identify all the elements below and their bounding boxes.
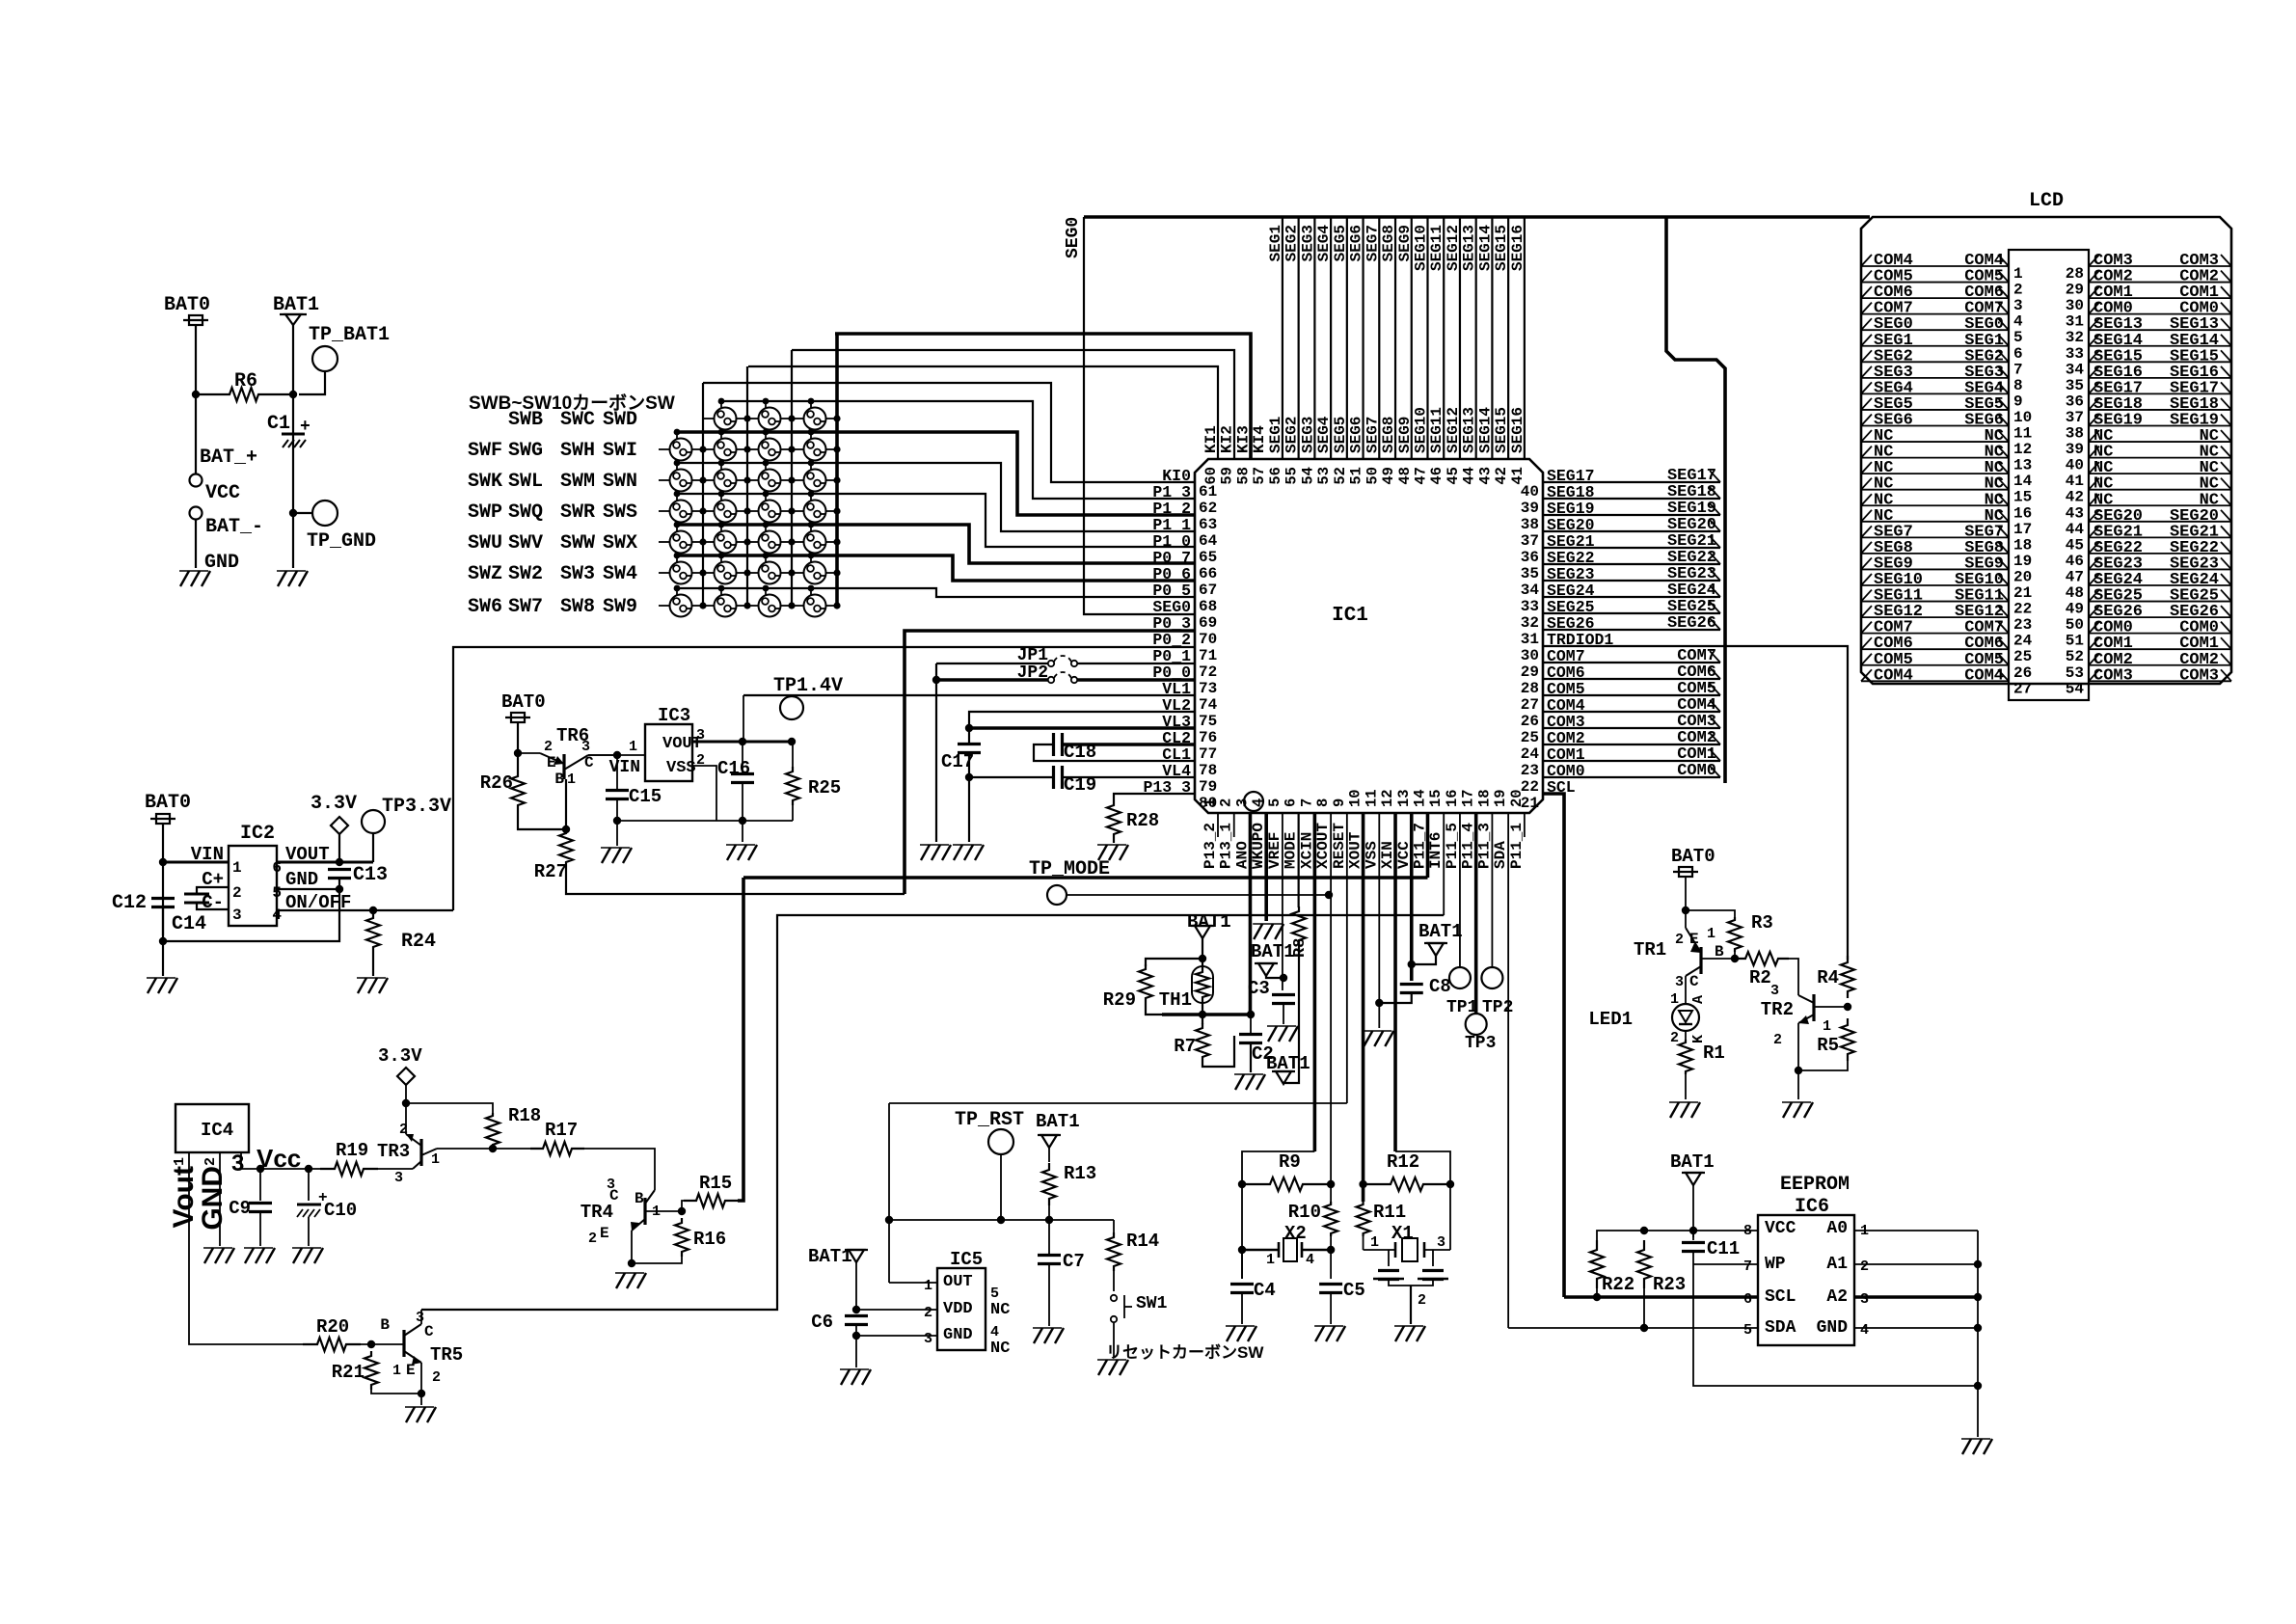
switch SWI [804, 439, 826, 461]
svg-text:43: 43 [1476, 467, 1494, 485]
LCD left row pin 4 COM7 [1861, 313, 2009, 315]
svg-text:2: 2 [1418, 1292, 1426, 1309]
wire XCOUT to R9 right [1330, 813, 1332, 1202]
svg-text:9: 9 [1331, 798, 1348, 807]
svg-text:R9: R9 [1279, 1151, 1301, 1173]
svg-text:71: 71 [1199, 647, 1217, 664]
svg-text:SEG12: SEG12 [1445, 225, 1462, 271]
svg-text:5: 5 [2013, 329, 2023, 346]
wire C12 ground [162, 941, 164, 976]
svg-text:R3: R3 [1751, 912, 1773, 934]
svg-text:34: 34 [1521, 582, 1540, 599]
svg-text:SEG8: SEG8 [1380, 225, 1397, 261]
svg-text:IC1: IC1 [1332, 605, 1368, 627]
ground (C12) [148, 978, 156, 993]
resistor R28 [1107, 802, 1121, 837]
svg-text:IC4: IC4 [201, 1120, 233, 1141]
svg-text:7: 7 [2013, 361, 2023, 378]
svg-text:TP3: TP3 [1465, 1034, 1496, 1053]
testpoint TP_MODE circle [1047, 885, 1067, 905]
LCD left row pin 9 SEG4 [1861, 392, 2009, 394]
LCD left row pin 19 SEG8 [1861, 553, 2009, 555]
wire SEG22 row [1543, 563, 1720, 565]
ground (C10) [293, 1248, 302, 1263]
svg-text:24: 24 [2013, 633, 2033, 650]
svg-text:20: 20 [1508, 789, 1526, 807]
svg-text:IC5: IC5 [950, 1249, 983, 1270]
svg-text:TP_GND: TP_GND [307, 530, 376, 553]
wire RESET net rail [889, 1102, 1347, 1104]
svg-text:12: 12 [1379, 789, 1396, 807]
svg-text:XCOUT: XCOUT [1314, 823, 1332, 869]
svg-text:BAT_-: BAT_- [205, 516, 263, 538]
resistor R15 [684, 1194, 738, 1207]
wire VSS jog [692, 766, 716, 821]
matrix column bus 1 [746, 366, 748, 606]
ground (TR2) [1783, 1102, 1792, 1118]
capacitor C4 [1241, 1250, 1243, 1279]
svg-text:18: 18 [2013, 536, 2032, 554]
LCD right row pin 49 SEG25 [2089, 601, 2231, 603]
svg-text:TR2: TR2 [1761, 999, 1794, 1020]
svg-text:R8: R8 [1291, 938, 1310, 958]
svg-text:53: 53 [1315, 467, 1333, 485]
switch SWV [715, 531, 737, 554]
svg-text:36: 36 [2066, 392, 2084, 410]
svg-text:10: 10 [2013, 409, 2032, 426]
wire R29 bottom to node [1146, 1003, 1202, 1015]
wire junction to TP_GND [289, 509, 297, 517]
svg-text:SWD: SWD [603, 409, 637, 431]
svg-text:C11: C11 [1707, 1238, 1740, 1259]
wire COM1 row [1543, 760, 1720, 762]
svg-text:P13_2: P13_2 [1202, 823, 1219, 869]
switch SW9 [804, 595, 826, 617]
matrix row bus 0 [720, 401, 722, 409]
wire BAT1 to VCC rail [1692, 1185, 1694, 1237]
matrix row bus 3 [676, 494, 678, 501]
svg-text:60: 60 [1202, 467, 1220, 485]
svg-text:R18: R18 [508, 1105, 541, 1126]
resistor R20 [303, 1338, 361, 1351]
svg-text:44: 44 [2066, 521, 2085, 538]
wire R5 bottom to TR2 emitter [1798, 1061, 1848, 1070]
switch SWM [759, 470, 781, 492]
svg-text:67: 67 [1199, 582, 1217, 599]
capacitor C9 [259, 1169, 261, 1201]
svg-text:GND: GND [197, 1166, 229, 1231]
svg-text:BAT1: BAT1 [1251, 941, 1295, 962]
wire COM0 row [1543, 776, 1720, 778]
svg-text:C5: C5 [1343, 1280, 1365, 1301]
matrix row bus 6 [676, 588, 678, 596]
wire VL2 to C17 chain [969, 712, 1195, 744]
resistor R1 [1679, 1040, 1692, 1074]
svg-text:R15: R15 [699, 1173, 732, 1194]
svg-text:42: 42 [2066, 489, 2084, 506]
IC6 box [1758, 1215, 1854, 1345]
wire TP_RST down [1000, 1154, 1002, 1220]
svg-text:VSS: VSS [1363, 841, 1380, 869]
svg-text:1: 1 [232, 859, 242, 877]
svg-text:C18: C18 [1064, 742, 1096, 763]
matrix row bus 1 [676, 432, 678, 440]
wire WP down to GND bus [1693, 1264, 1978, 1386]
wire SEG21 row [1543, 547, 1720, 549]
svg-text:23: 23 [2013, 616, 2032, 634]
capacitor C8 [1400, 983, 1423, 986]
svg-text:+: + [300, 418, 311, 437]
wire TR5 collector up [420, 1310, 422, 1324]
svg-text:11: 11 [2013, 425, 2032, 443]
capacitor C18 between CL2 CL1 [1062, 743, 1195, 746]
ground (C7) [1034, 1328, 1042, 1343]
wire VIN [163, 861, 229, 864]
capacitor C15 [616, 755, 618, 791]
resistor R22 [1590, 1240, 1604, 1288]
LCD left row pin 16 NC [1861, 504, 2009, 506]
wire matrix row 2 to IC1 pin 64 [677, 463, 1195, 531]
svg-text:5: 5 [272, 884, 282, 902]
svg-text:7: 7 [1743, 1259, 1752, 1275]
svg-text:SEG15: SEG15 [1493, 225, 1510, 271]
svg-text:BAT0: BAT0 [1671, 846, 1715, 867]
wire pin9 RESET down [1346, 813, 1348, 1103]
wire BAT0 to TR1 [1685, 877, 1687, 918]
svg-text:1: 1 [392, 1363, 401, 1379]
svg-text:2: 2 [544, 739, 553, 755]
svg-text:SDA: SDA [1765, 1318, 1796, 1338]
svg-text:SEG1: SEG1 [1267, 225, 1284, 261]
svg-text:56: 56 [1267, 467, 1284, 485]
svg-text:55: 55 [1283, 467, 1301, 485]
svg-text:SWB: SWB [508, 409, 543, 431]
wire matrix row 4 to IC1 pin 66 [677, 525, 1195, 563]
svg-text:4: 4 [990, 1324, 999, 1340]
LCD left row pin 7 SEG2 [1861, 361, 2009, 363]
svg-text:25: 25 [1521, 729, 1539, 746]
svg-text:64: 64 [1199, 532, 1218, 550]
svg-text:JP1: JP1 [1017, 646, 1049, 665]
LCD right row pin 43 NC [2089, 504, 2231, 506]
testpoint TP_GND [312, 501, 338, 526]
svg-text:INT6: INT6 [1427, 832, 1445, 869]
svg-text:19: 19 [2013, 553, 2032, 570]
svg-text:TP_BAT1: TP_BAT1 [309, 324, 390, 346]
svg-text:38: 38 [1521, 516, 1539, 533]
svg-text:31: 31 [2066, 313, 2084, 331]
wire matrix row 1 to IC1 pin 63 [677, 432, 1195, 515]
LCD right row pin 28 COM3 [2089, 265, 2231, 267]
svg-text:19: 19 [1492, 789, 1509, 807]
svg-text:2: 2 [924, 1305, 932, 1321]
svg-text:R17: R17 [545, 1120, 578, 1141]
svg-text:36: 36 [1521, 549, 1539, 566]
wire matrix col1 to KI1 pin60 [748, 366, 1218, 459]
resistor R9 [1242, 1177, 1331, 1191]
svg-text:52: 52 [2066, 648, 2084, 665]
svg-text:R28: R28 [1126, 810, 1159, 831]
svg-text:R10: R10 [1288, 1202, 1321, 1223]
switch SWX [804, 531, 826, 554]
wire TR6 base down [565, 779, 567, 808]
wire JP ground leg [935, 663, 937, 842]
svg-text:BAT0: BAT0 [145, 792, 191, 814]
wire ON/OFF pin4 [277, 909, 453, 911]
svg-text:46: 46 [2066, 553, 2084, 570]
svg-text:15: 15 [1427, 789, 1445, 807]
capacitor C11 [1692, 1231, 1694, 1240]
wire COM2 row [1543, 744, 1720, 745]
svg-text:R6: R6 [234, 370, 257, 392]
svg-text:40: 40 [1521, 483, 1539, 501]
wire GND pin4 [1854, 1327, 1978, 1329]
svg-text:SEG26: SEG26 [1667, 614, 1716, 633]
ground (C5) [1315, 1326, 1324, 1341]
wire VCC rail [1597, 1231, 1758, 1240]
svg-text:A0: A0 [1826, 1219, 1848, 1238]
resistor R6 [196, 388, 292, 401]
svg-text:1: 1 [1707, 926, 1715, 942]
wire R14 corner [1113, 1220, 1115, 1232]
LCD left row pin 14 NC [1861, 473, 2009, 474]
ground (C6) [841, 1369, 850, 1385]
switch SWD [804, 408, 826, 430]
wire R23 bottom to SDA [1643, 1288, 1645, 1328]
svg-text:C15: C15 [629, 786, 662, 807]
svg-text:C10: C10 [324, 1200, 357, 1221]
wire R2 to TR2 collector [1789, 959, 1798, 995]
LCD right row pin 46 SEG22 [2089, 553, 2231, 555]
LCD left row pin 2 COM5 [1861, 282, 2009, 284]
wire pin11 VSS to ground [1378, 813, 1380, 1028]
matrix column bus 3 [835, 334, 839, 606]
svg-text:4: 4 [272, 907, 282, 924]
capacitor C3 [1272, 993, 1295, 996]
wire XOUT down to R11 [1362, 813, 1365, 1202]
svg-text:VSS: VSS [666, 759, 696, 777]
svg-text:17: 17 [2013, 521, 2032, 538]
svg-text:R12: R12 [1387, 1151, 1419, 1173]
svg-text:C: C [609, 1187, 619, 1204]
svg-text:TP_RST: TP_RST [955, 1109, 1024, 1131]
svg-text:SW6: SW6 [468, 596, 502, 618]
wire SCL to IC6 [1564, 1295, 1758, 1299]
LCD left row pin 27 COM4 [1861, 680, 2009, 682]
svg-text:R25: R25 [808, 777, 841, 798]
wire TR1 collector to LED [1685, 976, 1687, 1004]
wire COM5 row [1543, 694, 1720, 696]
X1 internal cap right [1432, 1250, 1434, 1266]
bus SEG top horizontal [1084, 215, 1870, 219]
svg-text:KI1: KI1 [1202, 425, 1220, 453]
svg-text:SWK: SWK [468, 471, 502, 493]
svg-text:R27: R27 [534, 861, 567, 882]
LCD left row pin 3 COM6 [1861, 297, 2009, 299]
switch SWN [804, 470, 826, 492]
switch SWG [715, 439, 737, 461]
svg-text:3: 3 [1437, 1234, 1445, 1251]
matrix row bus 2 [676, 463, 678, 471]
wire COM3 row [1543, 727, 1720, 729]
svg-text:22: 22 [2013, 601, 2032, 618]
resistor R18 [486, 1113, 500, 1148]
LCD left row pin 11 SEG6 [1861, 425, 2009, 427]
LCD right row pin 41 NC [2089, 473, 2231, 474]
svg-text:3: 3 [2013, 297, 2023, 314]
switch SW1 [1111, 1295, 1117, 1301]
wire TR6 C to VIN [588, 754, 645, 756]
svg-text:R14: R14 [1126, 1231, 1159, 1252]
svg-text:59: 59 [1219, 467, 1236, 485]
svg-text:KI4: KI4 [1251, 425, 1268, 453]
svg-text:6: 6 [2013, 345, 2023, 363]
svg-text:77: 77 [1199, 745, 1217, 763]
svg-text:R22: R22 [1602, 1274, 1634, 1295]
svg-text:16: 16 [2013, 504, 2032, 522]
svg-text:SWX: SWX [603, 532, 637, 555]
svg-text:BAT0: BAT0 [164, 294, 210, 316]
ground (TR5) [406, 1407, 415, 1422]
wire SEG0 vertical to pin 69 [1084, 217, 1195, 614]
resistor R16 [675, 1218, 689, 1257]
wire P11_7 TP_MODE horizontal [743, 876, 1427, 880]
capacitor C16 [742, 742, 743, 774]
svg-text:3: 3 [416, 1310, 424, 1326]
svg-text:4: 4 [2013, 313, 2023, 331]
ground (EEPROM) [1962, 1439, 1971, 1454]
svg-text:25: 25 [2013, 648, 2032, 665]
wire COM4 row [1543, 711, 1720, 713]
svg-text:SW9: SW9 [603, 596, 637, 618]
ground (C4) [1227, 1326, 1235, 1341]
svg-text:20: 20 [2013, 568, 2032, 585]
resistor R25 [792, 742, 794, 767]
svg-text:SEG14: SEG14 [1476, 225, 1494, 271]
wire TR3 emitter to 3.3V [405, 1103, 407, 1134]
resistor R10 body [1324, 1202, 1337, 1236]
svg-text:VDD: VDD [943, 1300, 973, 1318]
svg-text:SCL: SCL [1765, 1287, 1796, 1307]
svg-text:C: C [424, 1323, 434, 1340]
svg-text:6: 6 [1283, 798, 1300, 807]
svg-text:51: 51 [1348, 467, 1365, 485]
LCD left row pin 13 NC [1861, 457, 2009, 459]
svg-text:3: 3 [231, 1150, 244, 1177]
svg-text:VCC: VCC [205, 482, 240, 504]
svg-text:C13: C13 [353, 864, 388, 886]
wire COM6 row [1543, 678, 1720, 680]
LCD right row pin 30 COM1 [2089, 297, 2231, 299]
svg-text:Vout: Vout [168, 1166, 200, 1228]
wire TRDIOD1 to R4 net [1543, 646, 1848, 960]
svg-text:R2: R2 [1749, 967, 1771, 988]
wire ANO thick [1162, 1013, 1251, 1016]
wire pin5 VREF vertical [1282, 813, 1283, 990]
svg-text:61: 61 [1199, 483, 1217, 501]
capacitor C19 between VL4 and C17 net [1062, 776, 1195, 778]
svg-text:BAT1: BAT1 [273, 294, 319, 316]
svg-text:GND: GND [1817, 1318, 1849, 1338]
svg-text:R13: R13 [1064, 1163, 1096, 1184]
wire BAT1 to VREF [1266, 976, 1283, 978]
wire INT6 long [421, 915, 1444, 1310]
wire R7 bottom elbow [1202, 1036, 1234, 1067]
svg-text:28: 28 [1521, 680, 1539, 697]
svg-text:4: 4 [1306, 1252, 1314, 1268]
svg-text:14: 14 [1411, 789, 1428, 807]
svg-text:73: 73 [1199, 680, 1217, 697]
svg-text:48: 48 [1396, 467, 1414, 485]
svg-text:SEG7: SEG7 [1364, 225, 1381, 261]
LCD pin number box [2009, 250, 2089, 700]
svg-text:42: 42 [1493, 467, 1510, 485]
thermistor TH1 [1196, 965, 1209, 1004]
svg-text:SW3: SW3 [560, 563, 595, 585]
svg-text:リセットカーボンSW: リセットカーボンSW [1106, 1343, 1264, 1362]
LCD right row pin 31 COM0 [2089, 313, 2231, 315]
svg-text:GND: GND [204, 552, 239, 574]
svg-text:SWP: SWP [468, 501, 502, 524]
svg-text:44: 44 [1461, 467, 1478, 485]
ground (C17 chain) [954, 845, 962, 860]
svg-text:5: 5 [1266, 798, 1283, 807]
svg-text:NC: NC [990, 1301, 1010, 1319]
svg-text:75: 75 [1199, 713, 1217, 730]
LCD right row pin 34 SEG15 [2089, 361, 2231, 363]
svg-text:2: 2 [588, 1231, 597, 1247]
svg-text:COM3: COM3 [2093, 666, 2133, 685]
wire pin4 WKUPO to ground [1264, 813, 1268, 921]
svg-text:2: 2 [232, 884, 242, 902]
svg-text:SEG4: SEG4 [1315, 225, 1333, 262]
svg-text:13: 13 [1395, 789, 1413, 807]
svg-text:8: 8 [2013, 377, 2023, 394]
svg-text:3: 3 [924, 1331, 932, 1347]
svg-text:SWS: SWS [603, 501, 637, 524]
svg-text:13: 13 [2013, 457, 2032, 474]
svg-text:SWM: SWM [560, 471, 595, 493]
svg-text:TP3.3V: TP3.3V [382, 796, 451, 818]
svg-text:12: 12 [2013, 441, 2032, 458]
testpoint TP3 [1466, 1014, 1487, 1035]
wire pin3 ANO vertical [1249, 813, 1253, 1015]
svg-text:SWZ: SWZ [468, 563, 502, 585]
svg-text:SEG5: SEG5 [1332, 225, 1349, 261]
svg-text:50: 50 [1364, 467, 1381, 485]
svg-text:5: 5 [1743, 1322, 1752, 1339]
wire to GND [195, 519, 197, 568]
switch SWR [759, 501, 781, 523]
wire SEG18 row [1543, 498, 1720, 500]
svg-text:SEG10: SEG10 [1412, 225, 1429, 271]
wire R17 to TR4 [584, 1149, 655, 1190]
wire SEG19 row [1543, 514, 1720, 516]
svg-text:5: 5 [990, 1286, 999, 1302]
switch SWQ [715, 501, 737, 523]
ground (TR4) [616, 1273, 625, 1288]
svg-text:33: 33 [2066, 345, 2084, 363]
wire 3.3V rail to R18 [406, 1103, 493, 1115]
svg-text:45: 45 [2066, 536, 2084, 554]
svg-text:COM3: COM3 [2179, 666, 2219, 685]
svg-text:TR5: TR5 [430, 1344, 463, 1366]
svg-text:B: B [554, 771, 564, 788]
svg-text:35: 35 [2066, 377, 2084, 394]
switch SWZ [670, 562, 692, 584]
LCD right row pin 36 SEG17 [2089, 392, 2231, 394]
svg-text:SW2: SW2 [508, 563, 543, 585]
